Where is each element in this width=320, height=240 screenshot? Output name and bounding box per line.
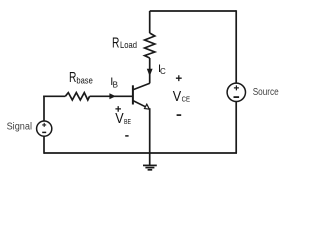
svg-text:C: C bbox=[160, 67, 166, 76]
svg-text:V: V bbox=[173, 89, 182, 105]
label VBE plus bbox=[115, 106, 121, 112]
wire emitter vertical bbox=[149, 108, 151, 165]
source V2 Source bbox=[227, 83, 245, 101]
wire right vertical lower bbox=[235, 102, 237, 154]
svg-text:Source: Source bbox=[253, 87, 279, 98]
label VCE plus bbox=[176, 75, 182, 81]
wire collector vertical bbox=[149, 58, 151, 83]
svg-text:R: R bbox=[112, 35, 120, 52]
label VCE bbox=[173, 89, 190, 105]
svg-text:Signal: Signal bbox=[7, 121, 32, 132]
resistor RLoad bbox=[145, 33, 155, 58]
svg-text:R: R bbox=[69, 69, 77, 86]
wire bottom horizontal bbox=[44, 152, 237, 154]
current arrow IB bbox=[109, 93, 115, 99]
label VCE minus bbox=[177, 114, 182, 116]
svg-text:B: B bbox=[113, 81, 118, 90]
wire base right segment bbox=[90, 95, 133, 97]
label IB bbox=[110, 76, 118, 90]
label RLoad bbox=[112, 35, 137, 52]
svg-text:BE: BE bbox=[124, 117, 131, 126]
label Rbase bbox=[69, 69, 93, 87]
wire left vertical lower bbox=[43, 136, 45, 154]
source V1 Signal bbox=[37, 121, 52, 136]
wire RLoad top lead bbox=[149, 11, 151, 33]
current arrow IC bbox=[147, 69, 153, 77]
resistor Rbase bbox=[65, 93, 89, 100]
transistor Q1 bbox=[133, 83, 150, 109]
wire right vertical upper bbox=[235, 10, 237, 83]
ground bbox=[143, 165, 157, 169]
svg-text:V: V bbox=[115, 111, 124, 127]
wire top horizontal bbox=[150, 10, 237, 12]
svg-text:Load: Load bbox=[120, 40, 137, 51]
svg-text:base: base bbox=[76, 76, 92, 87]
wire left vertical upper bbox=[43, 96, 45, 122]
label IC bbox=[158, 63, 166, 76]
svg-text:CE: CE bbox=[182, 95, 190, 104]
label VBE bbox=[115, 111, 131, 127]
wire base left segment bbox=[43, 95, 65, 97]
label VBE minus bbox=[125, 135, 128, 137]
